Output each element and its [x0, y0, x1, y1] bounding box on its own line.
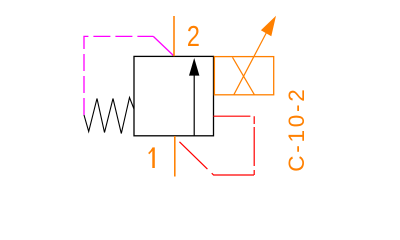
svg-text:2: 2	[187, 21, 200, 53]
svg-text:C-10-2: C-10-2	[284, 89, 309, 172]
